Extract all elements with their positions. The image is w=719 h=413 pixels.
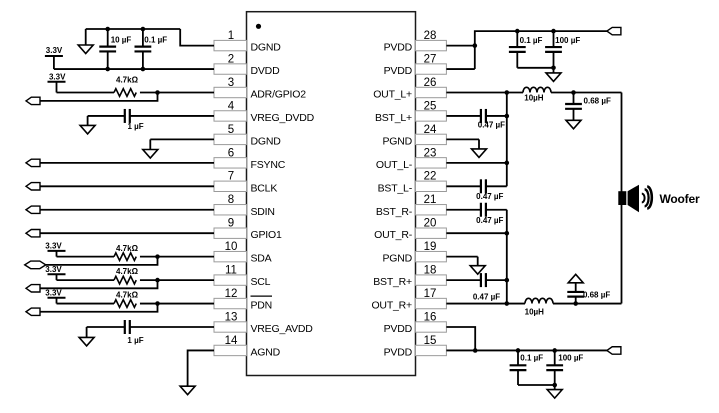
- ground PGND: [472, 139, 487, 157]
- wire from tag: [40, 93, 157, 101]
- svg-text:BCLK: BCLK: [251, 182, 278, 194]
- svg-text:25: 25: [424, 100, 437, 112]
- wire: [486, 185, 507, 187]
- svg-text:4.7kΩ: 4.7kΩ: [116, 244, 139, 253]
- connector tag BCLK: [26, 183, 40, 190]
- pin 27 box: [416, 64, 447, 74]
- svg-text:0.47 µF: 0.47 µF: [476, 216, 503, 225]
- capacitor 10uF: [99, 29, 116, 69]
- connector tag PVDD: [607, 347, 621, 354]
- ground: [143, 139, 158, 158]
- junction: [473, 348, 478, 353]
- pin 10 box: [214, 251, 247, 261]
- svg-text:4.7kΩ: 4.7kΩ: [116, 267, 139, 276]
- resistor 4.7k SCL pullup: [114, 276, 136, 284]
- wire to pin 3: [140, 92, 214, 94]
- svg-text:PGND: PGND: [382, 253, 412, 265]
- capacitor 0.1uF PVDD: [510, 350, 527, 385]
- svg-text:BST_R+: BST_R+: [373, 276, 412, 288]
- svg-text:23: 23: [424, 147, 437, 159]
- svg-text:Woofer: Woofer: [660, 192, 700, 206]
- svg-text:SDIN: SDIN: [251, 206, 275, 218]
- wire from pin 17 OUT_R+: [446, 303, 525, 305]
- wire: [57, 279, 115, 281]
- wire: [57, 92, 115, 94]
- junction node ADR: [155, 90, 160, 95]
- wire from pin 25: [446, 115, 481, 117]
- junction: [551, 29, 556, 34]
- ground: [80, 116, 95, 134]
- wire from pin 27: [446, 68, 474, 70]
- wire FSYNC to pin 6: [40, 162, 214, 164]
- capacitor 100uF PVDD: [546, 350, 563, 385]
- capacitor 0.47uF BST_R-: [481, 203, 486, 217]
- wire: [486, 209, 507, 211]
- pin 1 box: [214, 40, 247, 50]
- svg-text:20: 20: [424, 218, 437, 230]
- svg-text:1: 1: [228, 30, 234, 42]
- junction: [505, 301, 510, 306]
- wire OUT_R paralleling rail: [506, 210, 508, 304]
- pin 14 box: [214, 345, 247, 355]
- wire to pin 12: [140, 303, 214, 305]
- svg-text:SCL: SCL: [251, 276, 271, 288]
- resistor 4.7k PDN pullup: [114, 300, 136, 308]
- capacitor 0.1uF: [135, 29, 152, 69]
- wire: [486, 115, 507, 117]
- junction node PDN: [155, 301, 160, 306]
- junction: [505, 231, 510, 236]
- wire to pin 2: [54, 68, 214, 70]
- pin 13 box: [214, 322, 247, 332]
- connector tag SDIN: [26, 206, 40, 213]
- wire from tag: [40, 304, 157, 312]
- pin 20 box: [416, 228, 447, 238]
- pin 5 box: [214, 134, 247, 144]
- capacitor 0.68uF: [565, 93, 582, 121]
- pin 15 box: [416, 345, 447, 355]
- svg-text:5: 5: [228, 124, 234, 136]
- pin 21 box: [416, 205, 447, 215]
- svg-text:PVDD: PVDD: [384, 42, 413, 54]
- svg-text:3.3V: 3.3V: [49, 72, 66, 81]
- connector tag ADR/GPIO2: [26, 97, 40, 104]
- wire: [88, 115, 125, 117]
- wire from pin 4: [131, 115, 215, 117]
- svg-text:9: 9: [228, 218, 234, 230]
- svg-text:8: 8: [228, 194, 234, 206]
- junction: [551, 66, 556, 71]
- arrow up (supply): [568, 274, 583, 283]
- junction: [515, 29, 520, 34]
- connector tag PDN: [26, 308, 40, 315]
- capacitor 100uF PVDD: [545, 31, 562, 68]
- svg-text:12: 12: [225, 288, 238, 300]
- wire to woofer-: [553, 303, 622, 305]
- svg-text:17: 17: [424, 288, 437, 300]
- svg-text:3: 3: [228, 77, 234, 89]
- wire: [486, 279, 507, 281]
- junction node SDA: [155, 254, 160, 259]
- junction: [516, 348, 521, 353]
- svg-text:15: 15: [424, 335, 437, 347]
- pin 22 box: [416, 181, 447, 191]
- pin 24 box: [416, 134, 447, 144]
- connector tag GPIO1: [26, 230, 40, 237]
- ground: [79, 327, 94, 346]
- 3.3V supply SDA: [45, 241, 65, 256]
- svg-text:DGND: DGND: [251, 42, 282, 54]
- wire DVDD top rail: [86, 28, 181, 30]
- svg-text:3.3V: 3.3V: [45, 288, 62, 297]
- junction: [505, 278, 510, 283]
- svg-text:0.47 µF: 0.47 µF: [473, 292, 500, 301]
- svg-text:10: 10: [225, 241, 238, 253]
- svg-text:4.7kΩ: 4.7kΩ: [116, 291, 139, 300]
- svg-text:PDN: PDN: [251, 300, 273, 312]
- junction: [571, 90, 576, 95]
- junction: [141, 67, 146, 72]
- svg-text:22: 22: [424, 171, 437, 183]
- ground PGND: [470, 257, 485, 275]
- wire: [518, 384, 555, 386]
- capacitor 0.47uF BST_R+: [481, 273, 486, 287]
- svg-text:BST_L-: BST_L-: [378, 182, 413, 194]
- wire: [57, 303, 115, 305]
- svg-text:0.47 µF: 0.47 µF: [476, 192, 503, 201]
- junction node SCL: [155, 278, 160, 283]
- svg-text:16: 16: [424, 311, 437, 323]
- 3.3V supply ADR: [48, 72, 67, 92]
- wire from pin 18: [446, 279, 481, 281]
- wire from pin 23: [446, 162, 506, 164]
- svg-text:3.3V: 3.3V: [46, 46, 63, 55]
- svg-text:PVDD: PVDD: [384, 65, 413, 77]
- junction: [552, 383, 557, 388]
- wire from pin 14: [188, 350, 214, 386]
- pin 4 box: [214, 111, 247, 121]
- svg-text:100 µF: 100 µF: [555, 36, 580, 45]
- wire from pin 15 PVDD: [446, 349, 607, 351]
- wire from tag: [46, 257, 158, 265]
- pin 2 box: [214, 64, 247, 74]
- connector tag FSYNC: [26, 159, 40, 166]
- svg-text:0.68 µF: 0.68 µF: [583, 291, 610, 300]
- resistor R1 4.7k: [114, 89, 136, 97]
- svg-text:BST_R-: BST_R-: [376, 206, 413, 218]
- junction: [473, 43, 478, 48]
- resistor 4.7k SDA pullup: [114, 253, 136, 261]
- pin 26 box: [416, 87, 447, 97]
- wire from pin 21: [446, 209, 481, 211]
- ground: [566, 120, 581, 129]
- pin 3 box: [214, 87, 247, 97]
- pin 19 box: [416, 251, 447, 261]
- pin 16 box: [416, 322, 447, 332]
- svg-text:0.68 µF: 0.68 µF: [584, 96, 611, 105]
- wire to pin 11: [140, 279, 214, 281]
- svg-text:OUT_R-: OUT_R-: [374, 229, 413, 241]
- op-amp/IC U1 body (28-pin audio amplifier): [247, 12, 416, 376]
- wire from pin 5: [150, 138, 214, 140]
- junction: [141, 27, 146, 32]
- inductor 10uH L2: [525, 298, 553, 303]
- wire OUT_L paralleling rail: [506, 93, 508, 187]
- svg-text:13: 13: [225, 311, 238, 323]
- wire SDIN to pin 8: [40, 209, 214, 211]
- pin 25 box: [416, 111, 447, 121]
- svg-text:100 µF: 100 µF: [558, 353, 583, 362]
- svg-text:PGND: PGND: [382, 135, 412, 147]
- speaker Woofer: [618, 185, 652, 213]
- svg-text:3.3V: 3.3V: [45, 265, 62, 274]
- wire PVDD rail top: [475, 31, 607, 69]
- junction: [505, 161, 510, 166]
- svg-text:3.3V: 3.3V: [45, 241, 62, 250]
- svg-text:0.1 µF: 0.1 µF: [520, 353, 543, 362]
- ground: [547, 385, 562, 398]
- wire from pin 20: [446, 232, 506, 234]
- svg-text:OUT_L+: OUT_L+: [373, 89, 412, 101]
- junction: [105, 27, 110, 32]
- svg-text:24: 24: [424, 124, 437, 136]
- pin 23 box: [416, 158, 447, 168]
- svg-text:DVDD: DVDD: [251, 65, 281, 77]
- wire from pin 26 OUT_L+: [446, 92, 523, 94]
- 3.3V supply PDN: [45, 288, 65, 303]
- svg-text:OUT_L-: OUT_L-: [376, 159, 413, 171]
- wire from pin 24: [446, 138, 479, 140]
- svg-text:0.1 µF: 0.1 µF: [520, 36, 543, 45]
- pin 8 box: [214, 205, 247, 215]
- ground: [546, 68, 561, 82]
- pin 28 box: [416, 40, 447, 50]
- svg-text:27: 27: [424, 53, 437, 65]
- inductor 10uH L1: [523, 87, 551, 92]
- wire from pin 19: [446, 256, 477, 258]
- junction OUT_L node: [505, 90, 510, 95]
- svg-text:VREG_AVDD: VREG_AVDD: [251, 323, 314, 335]
- svg-text:7: 7: [228, 171, 234, 183]
- svg-text:VREG_DVDD: VREG_DVDD: [251, 112, 315, 124]
- pin 18 box: [416, 275, 447, 285]
- ground GND1: [78, 29, 93, 54]
- svg-text:18: 18: [424, 265, 437, 277]
- svg-text:26: 26: [424, 77, 437, 89]
- connector tag SCL: [26, 285, 40, 292]
- 3.3V supply DVDD: [45, 46, 63, 69]
- connector tag SDA: [25, 261, 46, 269]
- pin 11 box: [214, 275, 247, 285]
- wire: [517, 67, 553, 69]
- svg-text:21: 21: [424, 194, 437, 206]
- svg-text:ADR/GPIO2: ADR/GPIO2: [251, 89, 307, 101]
- pin 17 box: [416, 298, 447, 308]
- capacitor 0.47uF BST_L+: [481, 109, 486, 123]
- svg-text:PVDD: PVDD: [384, 323, 413, 335]
- wire to pin 10: [140, 256, 214, 258]
- svg-text:28: 28: [424, 30, 437, 42]
- svg-text:0.1 µF: 0.1 µF: [144, 36, 167, 45]
- capacitor 0.68uF (bottom): [567, 283, 584, 304]
- junction: [573, 301, 578, 306]
- pin 1 marker dot: [256, 24, 261, 29]
- junction: [505, 114, 510, 119]
- svg-text:OUT_R+: OUT_R+: [371, 300, 412, 312]
- svg-text:BST_L+: BST_L+: [375, 112, 412, 124]
- pin 6 box: [214, 158, 247, 168]
- 3.3V supply SCL: [45, 265, 65, 280]
- wire from tag: [40, 280, 157, 288]
- wire GPIO1 to pin 9: [40, 232, 214, 234]
- ground AGND: [180, 385, 195, 395]
- wire to pin 1: [180, 29, 214, 46]
- pin 9 box: [214, 228, 247, 238]
- svg-text:4: 4: [228, 100, 235, 112]
- svg-text:DGND: DGND: [251, 135, 282, 147]
- svg-text:4.7kΩ: 4.7kΩ: [116, 76, 139, 85]
- svg-text:1 µF: 1 µF: [127, 336, 143, 345]
- capacitor 1uF: [125, 320, 130, 334]
- svg-text:14: 14: [225, 335, 238, 347]
- wire from pin 22: [446, 185, 481, 187]
- svg-text:AGND: AGND: [251, 346, 281, 358]
- svg-text:2: 2: [228, 53, 234, 65]
- svg-text:0.47 µF: 0.47 µF: [478, 121, 505, 130]
- svg-text:10µH: 10µH: [524, 94, 544, 103]
- svg-text:6: 6: [228, 147, 234, 159]
- connector tag PVDD: [607, 27, 621, 34]
- wire: [87, 326, 125, 328]
- svg-text:1 µF: 1 µF: [128, 122, 144, 131]
- capacitor 0.47uF BST_L-: [481, 179, 486, 193]
- wire from pin 16: [446, 327, 475, 350]
- svg-text:FSYNC: FSYNC: [251, 159, 286, 171]
- svg-text:10µH: 10µH: [525, 307, 545, 316]
- wire BCLK to pin 7: [40, 185, 214, 187]
- capacitor 1uF: [125, 109, 130, 123]
- svg-text:GPIO1: GPIO1: [251, 229, 282, 241]
- wire to woofer+: [551, 92, 622, 94]
- capacitor 0.1uF PVDD: [509, 31, 526, 68]
- svg-text:SDA: SDA: [251, 253, 272, 265]
- svg-text:PVDD: PVDD: [384, 346, 413, 358]
- svg-text:19: 19: [424, 241, 437, 253]
- wire from pin 28: [446, 45, 474, 47]
- wire woofer vertical: [621, 93, 623, 304]
- svg-text:10 µF: 10 µF: [111, 36, 132, 45]
- wire: [57, 256, 115, 258]
- wire from pin 13: [131, 326, 215, 328]
- pin 12 box: [214, 298, 247, 308]
- pin 7 box: [214, 181, 247, 191]
- junction: [552, 348, 557, 353]
- svg-text:11: 11: [225, 265, 237, 277]
- junction: [105, 67, 110, 72]
